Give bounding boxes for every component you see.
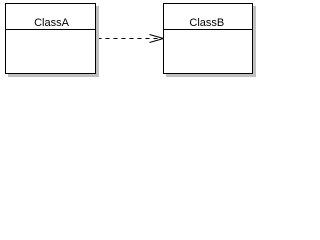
svg-text:ClassA: ClassA [34, 17, 70, 29]
divider ClassB [164, 29, 252, 31]
class box ClassA [6, 4, 96, 74]
class box ClassB [164, 4, 253, 74]
divider ClassA [6, 29, 95, 31]
wire: dashed dependency line ClassA -> ClassB [98, 38, 164, 40]
arrowhead (open) at ClassB [150, 35, 164, 43]
shadow of ClassB [166, 6, 256, 77]
svg-text:ClassB: ClassB [189, 17, 224, 29]
shadow of ClassA [8, 6, 99, 77]
